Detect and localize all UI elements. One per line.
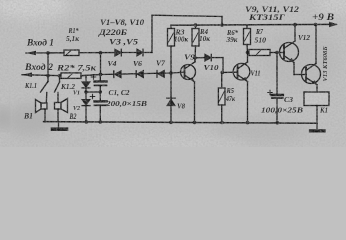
contact K1.1 blade <box>41 82 49 93</box>
diode V10 <box>195 54 223 60</box>
contact K1.2 blade <box>59 76 61 82</box>
node A junction <box>99 51 103 55</box>
wire V10 to V11 base <box>222 58 224 73</box>
node V10 branch <box>193 56 197 60</box>
wire ground rail <box>44 122 318 124</box>
node V13 collector top <box>314 23 318 27</box>
wire feedback top <box>152 15 222 16</box>
node rail V8 <box>169 121 173 125</box>
diode V4 <box>114 71 121 78</box>
ground speakers <box>53 122 67 129</box>
node R4 top <box>194 23 198 27</box>
node input 1 junction <box>46 51 50 55</box>
node rail V11 emitter <box>246 121 250 125</box>
speaker B2 <box>55 93 68 122</box>
node rail V2 <box>85 120 89 124</box>
diode V6 <box>136 71 143 78</box>
resistor R6 <box>244 25 251 53</box>
capacitor C2 <box>90 94 106 121</box>
wire input 1 <box>26 52 64 54</box>
transistor V11 <box>233 53 250 123</box>
input 1 terminal arrow <box>26 51 36 56</box>
wire node A to node B <box>100 53 102 75</box>
wire detector output up <box>151 15 153 52</box>
resistor R2 <box>61 73 81 79</box>
node link left <box>84 90 87 93</box>
wire feedback down to rail <box>221 17 223 26</box>
capacitor C1 <box>91 74 106 101</box>
wire inputs vertical <box>47 53 49 82</box>
node rail V9 emitter <box>193 121 197 125</box>
transistor V13 <box>302 25 321 92</box>
diode V3 <box>115 49 137 56</box>
resistor R7 <box>249 50 284 56</box>
supply arrow head <box>329 22 338 28</box>
node input 2 junction <box>46 74 50 78</box>
wire input 2 <box>22 75 61 76</box>
node B junction <box>99 73 103 77</box>
wire link diodes caps <box>86 91 100 93</box>
resistor R3 <box>168 25 175 73</box>
resistor R4 <box>192 25 199 61</box>
scan grain overlay <box>0 0 346 147</box>
diode V1 <box>82 75 90 99</box>
node V12 collector top <box>293 23 297 27</box>
input 2 terminal arrow <box>22 72 32 77</box>
diode V8 <box>167 73 175 122</box>
diode V7 <box>157 71 164 78</box>
resistor R1 <box>64 50 79 56</box>
transistor V9 <box>181 58 196 123</box>
node K1.2 feed <box>58 74 62 78</box>
node R3 bottom junction <box>169 71 173 75</box>
ground relay <box>311 123 325 131</box>
wire +9V supply rail <box>171 23 336 26</box>
diode V5 <box>137 49 152 55</box>
wire R2 to node B <box>81 75 101 76</box>
transistor V12 <box>280 25 307 75</box>
node R6 R7 V11 collector <box>246 51 250 55</box>
speaker B1 <box>36 93 48 122</box>
resistor R5 <box>218 72 225 122</box>
wire main detector line <box>81 72 185 76</box>
diode V2 <box>82 100 90 121</box>
node rail R5 <box>220 121 224 125</box>
node link right <box>99 90 102 93</box>
node rail C2 <box>99 120 103 124</box>
node R5 top <box>221 71 225 75</box>
capacitor C3 <box>268 53 283 124</box>
node rail C3 <box>276 121 280 125</box>
node C3 top <box>275 51 279 55</box>
relay K1 coil <box>304 92 329 123</box>
wire R1 to node A <box>79 52 115 54</box>
node feedback rail <box>220 23 224 27</box>
paper background <box>0 0 346 147</box>
